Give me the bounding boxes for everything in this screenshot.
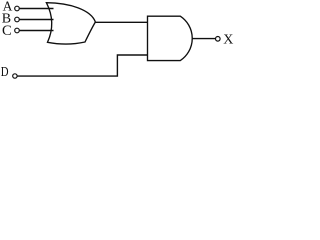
svg-text:X: X xyxy=(223,33,233,48)
OR gate U1 (3-input) xyxy=(46,3,95,44)
node D label xyxy=(1,64,9,79)
AND gate U2 xyxy=(148,16,193,60)
svg-text:C: C xyxy=(2,23,12,39)
wire A to OR gate xyxy=(20,8,54,10)
wire C to OR gate xyxy=(20,30,54,32)
node C terminal circle xyxy=(15,28,20,33)
wire B to OR gate xyxy=(20,19,54,21)
wire OR output to AND gate top input xyxy=(95,21,148,23)
wire AND output xyxy=(192,38,215,40)
wire D to AND gate bottom input (staircase) xyxy=(17,55,147,76)
output terminal circle xyxy=(216,37,221,42)
node A terminal circle xyxy=(15,6,20,11)
node B terminal circle xyxy=(15,17,20,22)
node D terminal circle xyxy=(13,74,17,78)
svg-text:D: D xyxy=(1,64,9,79)
